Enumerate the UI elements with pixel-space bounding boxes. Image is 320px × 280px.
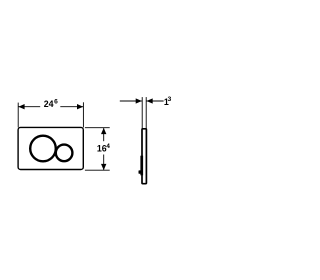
- height dimension extension line bottom: [85, 169, 110, 171]
- side view mounting clip tab: [139, 170, 142, 173]
- thickness dimension extension line left: [141, 97, 143, 129]
- svg-text:24: 24: [44, 99, 54, 109]
- flush plate front view outline: [18, 127, 83, 169]
- thickness dimension extension line right: [145, 97, 147, 129]
- large flush button circle: [30, 136, 56, 162]
- height dimension line lower segment: [103, 155, 105, 170]
- width dimension line right segment: [60, 106, 83, 108]
- svg-text:16: 16: [97, 144, 107, 154]
- svg-text:6: 6: [54, 98, 58, 105]
- side view plate profile outline: [142, 129, 146, 184]
- svg-text:3: 3: [168, 96, 172, 103]
- width dimension extension line right: [82, 102, 84, 127]
- thickness dimension arrow pointing left: [147, 98, 153, 103]
- thickness dimension arrow pointing right: [136, 98, 142, 103]
- height dimension line upper segment: [103, 128, 105, 141]
- width dimension arrow right: [77, 104, 83, 109]
- height dimension arrow down: [101, 164, 106, 170]
- side view rear frame thick band: [140, 156, 143, 176]
- thickness dimension line left segment: [120, 100, 142, 102]
- svg-text:4: 4: [106, 143, 110, 150]
- small flush button circle: [56, 145, 73, 162]
- width dimension extension line left: [17, 103, 19, 128]
- thickness dimension line right segment: [147, 100, 164, 102]
- width dimension line left segment: [18, 106, 40, 108]
- height dimension extension line top: [85, 127, 110, 129]
- width dimension arrow left: [18, 104, 24, 109]
- height dimension arrow up: [101, 128, 106, 134]
